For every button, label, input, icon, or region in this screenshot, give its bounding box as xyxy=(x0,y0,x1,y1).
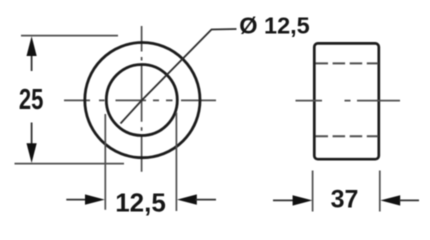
dimension tail right (dim 37) xyxy=(399,199,419,201)
extension line right (dim 37) xyxy=(379,171,381,212)
wire: front-view vertical centerline (dash-dot) xyxy=(141,26,143,172)
arrowhead left pointing right (dim 12,5) xyxy=(85,194,105,204)
svg-text:12,5: 12,5 xyxy=(115,188,166,218)
hidden line upper (hole, side view) xyxy=(316,62,379,64)
inner circle (hole, front view) xyxy=(106,65,177,136)
wire: front-view horizontal centerline (dash-dot) xyxy=(64,99,216,101)
extension line bottom (dim 25) xyxy=(15,163,125,165)
dimension line shafts (dim 25) xyxy=(31,54,33,145)
arrowhead up (dim 25) xyxy=(27,36,37,56)
outer circle of ring (front view) xyxy=(85,43,200,158)
svg-text:Ø 12,5: Ø 12,5 xyxy=(239,13,310,39)
extension line left (dim 37) xyxy=(312,171,314,212)
extension line left (dim 12,5) xyxy=(104,114,106,210)
hidden line lower (hole, side view) xyxy=(316,135,379,137)
svg-text:37: 37 xyxy=(331,186,359,214)
side view body rectangle xyxy=(314,43,379,159)
dimension tail right (dim 12,5) xyxy=(195,199,216,201)
arrowhead down (dim 25) xyxy=(27,143,37,163)
leader line for diameter callout xyxy=(121,29,237,124)
extension line top (dim 25) xyxy=(21,35,118,37)
wire: side-view horizontal centerline (dash-dot) xyxy=(296,100,401,102)
arrowhead right pointing left (dim 12,5) xyxy=(177,194,197,204)
arrowhead right pointing left (dim 37) xyxy=(380,195,400,205)
arrowhead left pointing right (dim 37) xyxy=(293,195,313,205)
svg-text:25: 25 xyxy=(19,84,44,116)
extension line right (dim 12,5) xyxy=(175,113,177,212)
dimension tail left (dim 37) xyxy=(273,199,294,201)
dimension tail left (dim 12,5) xyxy=(66,199,86,201)
